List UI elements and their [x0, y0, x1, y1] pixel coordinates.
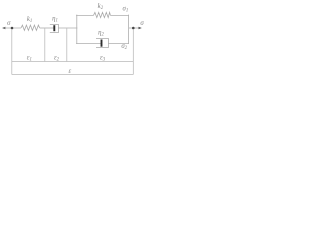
svg-text:k1: k1 — [27, 16, 32, 24]
svg-text:ε3: ε3 — [100, 54, 106, 62]
svg-text:ε2: ε2 — [54, 54, 60, 62]
svg-text:ε1: ε1 — [27, 54, 32, 62]
svg-text:σ: σ — [7, 20, 11, 27]
svg-text:σ2: σ2 — [121, 43, 127, 51]
svg-text:ε: ε — [68, 68, 71, 75]
svg-text:k2: k2 — [98, 3, 104, 11]
svg-text:σ1: σ1 — [123, 5, 129, 13]
svg-text:η2: η2 — [98, 30, 104, 38]
svg-text:σ: σ — [140, 20, 144, 27]
svg-text:η1: η1 — [52, 15, 58, 23]
